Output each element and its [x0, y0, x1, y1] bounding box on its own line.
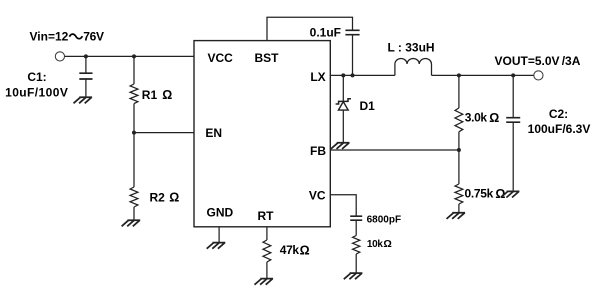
wire RT pin lead: [266, 227, 268, 240]
diode D1 (schottky): [336, 99, 351, 110]
wire R2 top lead: [133, 133, 135, 187]
svg-text:0.75k: 0.75k: [465, 187, 494, 201]
label 0.75k ohm: [465, 187, 506, 201]
svg-text:GND: GND: [207, 205, 234, 219]
wire C1 top lead: [85, 56, 87, 73]
svg-text:Ω: Ω: [300, 243, 310, 257]
node VOUT/C2 junction: [511, 73, 515, 77]
wire VC pin to compensation: [330, 195, 356, 216]
wire GND pin lead: [218, 227, 220, 243]
op-amp/regulator IC U1 box: [194, 41, 330, 227]
wire R2 bottom lead: [133, 207, 135, 220]
wire BST to 0.1uF cap: [267, 17, 353, 40]
label 47k ohm: [280, 243, 310, 257]
wire 3.0k top lead: [458, 75, 460, 108]
svg-text:6800pF: 6800pF: [367, 214, 401, 225]
svg-text:Ω: Ω: [162, 88, 172, 102]
svg-text:LX: LX: [310, 70, 325, 84]
capacitor C1: [79, 73, 92, 79]
wire R1 bottom to EN junction: [133, 104, 135, 133]
wire 0.1uF to LX: [352, 35, 354, 76]
wire 6800pF to 10k: [355, 220, 357, 235]
ground below D1: [331, 143, 350, 149]
svg-text:VOUT=5.0V/3A: VOUT=5.0V/3A: [495, 54, 581, 68]
node LX-rail/3.0k junction: [457, 73, 461, 77]
wire R1 top lead: [133, 56, 135, 84]
svg-text:C1:: C1:: [27, 70, 46, 84]
svg-text:D1: D1: [360, 99, 376, 113]
svg-text:76V: 76V: [83, 29, 104, 43]
capacitor 6800pF: [350, 216, 362, 220]
svg-text:47k: 47k: [280, 243, 300, 257]
inductor L 33uH: [395, 58, 432, 75]
label Vin=12~76V: [30, 29, 104, 43]
svg-text:0.1uF: 0.1uF: [310, 26, 341, 40]
capacitor 0.1uF: [345, 30, 359, 34]
ground below 10k: [344, 273, 363, 279]
resistor R2: [130, 187, 138, 207]
resistor 47k: [263, 240, 271, 262]
svg-text:VCC: VCC: [208, 51, 234, 65]
terminal Vin input: [55, 52, 64, 61]
ground below GND pin: [207, 243, 226, 249]
svg-text:EN: EN: [205, 126, 222, 140]
ground below 0.75k: [447, 213, 466, 219]
label R2 ohm: [150, 191, 180, 205]
svg-text:L : 33uH: L : 33uH: [387, 40, 434, 54]
wire 3.0k bottom to FB junction: [458, 132, 460, 150]
wire C2 bottom lead: [512, 122, 514, 191]
resistor R1: [130, 84, 138, 104]
ground below R2: [122, 220, 141, 226]
capacitor C2: [506, 118, 520, 123]
label R1 ohm: [142, 88, 173, 102]
wire 10k bottom lead: [355, 254, 357, 273]
svg-text:Vin=12: Vin=12: [30, 29, 69, 43]
ground below C2: [501, 191, 520, 197]
wire C1 bottom lead: [85, 79, 87, 97]
node input/C1 junction: [84, 54, 88, 58]
wire D1 anode lead: [342, 110, 344, 143]
resistor 3.0k: [455, 108, 463, 132]
node EN/R2 junction: [132, 131, 136, 135]
svg-text:10k: 10k: [367, 239, 384, 250]
node LX/D1 junction: [341, 73, 345, 77]
label 10k ohm: [367, 238, 392, 250]
svg-text:RT: RT: [258, 209, 275, 223]
svg-text:100uF/6.3V: 100uF/6.3V: [528, 122, 591, 136]
resistor 0.75k: [455, 184, 463, 204]
wire 0.75k top lead: [458, 150, 460, 184]
svg-text:Ω: Ω: [383, 238, 391, 250]
svg-text:C2:: C2:: [549, 107, 568, 121]
ground below C1: [74, 97, 93, 103]
wire input to VCC pin: [65, 55, 194, 57]
wire 47k bottom lead: [266, 262, 268, 278]
node input/R1 junction: [132, 54, 136, 58]
label 3.0k ohm: [465, 111, 500, 125]
ground below 47k: [255, 279, 274, 285]
wire inductor to VOUT terminal: [432, 74, 534, 76]
wire C2 top lead: [512, 75, 514, 117]
svg-text:Ω: Ω: [169, 191, 179, 205]
svg-text:10uF/100V: 10uF/100V: [5, 86, 68, 100]
terminal VOUT output: [534, 71, 543, 80]
svg-text:3.0k: 3.0k: [465, 111, 488, 125]
node FB junction: [457, 148, 461, 152]
svg-text:BST: BST: [255, 51, 280, 65]
svg-text:VC: VC: [309, 189, 326, 203]
wire EN pin: [134, 132, 194, 134]
node LX/0.1uF junction: [351, 73, 355, 77]
resistor 10k: [353, 236, 360, 255]
wire D1 cathode lead: [342, 75, 344, 101]
svg-text:R1: R1: [142, 88, 158, 102]
wire LX pin to inductor: [330, 74, 395, 76]
svg-text:R2: R2: [150, 191, 166, 205]
wire 0.75k bottom lead: [458, 204, 460, 213]
svg-text:Ω: Ω: [489, 111, 499, 125]
wire FB pin to divider: [330, 149, 459, 151]
svg-text:FB: FB: [310, 144, 326, 158]
